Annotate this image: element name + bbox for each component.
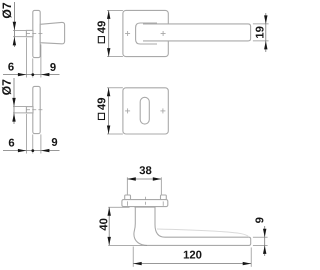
label Ø7 (drawing 1) bbox=[2, 3, 11, 18]
arrow 40 bottom (drawing 5) bbox=[108, 237, 111, 246]
keyhole slot (drawing 4) bbox=[140, 97, 149, 124]
6 / 9 dimension line (drawing 2) bbox=[3, 150, 60, 152]
screw axis tick left (drawing 5) bbox=[127, 201, 129, 205]
9 dimension line (drawing 5) bbox=[264, 226, 266, 256]
fixing stub (drawing 2) bbox=[26, 107, 33, 113]
extension line grip top (drawing 3) bbox=[253, 23, 269, 25]
spindle stub (drawing 1) bbox=[26, 30, 33, 36]
centerline (drawing 1) bbox=[26, 33, 45, 35]
extension line 120 right (drawing 5) bbox=[250, 248, 252, 267]
arrow for 9 (drawing 2) bbox=[41, 149, 50, 152]
label Ø7 (drawing 2) bbox=[2, 80, 11, 95]
extension line rose top (drawing 3) bbox=[107, 9, 123, 11]
arrow 120 left (drawing 5) bbox=[133, 262, 142, 265]
120 dimension line (drawing 5) bbox=[133, 263, 251, 265]
square symbol of &#9633;49 (drawing 3) bbox=[98, 37, 104, 43]
key rose side view (drawing 2) bbox=[33, 86, 40, 133]
49 dimension line (drawing 4) bbox=[108, 88, 110, 134]
arrow 9 bottom (drawing 5) bbox=[263, 245, 266, 254]
arrow 120 right (drawing 5) bbox=[243, 262, 252, 265]
arrow rose top (drawing 3) bbox=[107, 10, 110, 19]
label 49 (drawing 3) bbox=[97, 21, 105, 33]
screw mark left (drawing 3) bbox=[125, 33, 130, 35]
arrow 38 left (drawing 5) bbox=[127, 177, 136, 180]
extension line screw left (drawing 5) bbox=[126, 177, 128, 194]
arrow to stub bottom (drawing 1) bbox=[13, 37, 16, 46]
reference dot (drawing 2) bbox=[31, 149, 34, 152]
extension line stub bottom (drawing 2) bbox=[13, 112, 28, 114]
arrow grip top (drawing 3) bbox=[264, 15, 267, 24]
6 / 9 dimension line (drawing 1) bbox=[3, 74, 60, 76]
49 dimension line (drawing 3) bbox=[108, 10, 110, 56]
label 49 (drawing 4) bbox=[97, 98, 105, 110]
arrow rose top (drawing 4) bbox=[107, 88, 110, 97]
arrow for 9 (drawing 1) bbox=[41, 73, 50, 76]
square symbol of &#9633;49 (drawing 4) bbox=[98, 113, 104, 119]
extension line grip bottom left (drawing 5) bbox=[108, 244, 147, 246]
square rose front view (drawing 3) bbox=[123, 10, 168, 56]
label 40 (drawing 5) bbox=[99, 219, 107, 231]
label 38 (drawing 5) bbox=[139, 166, 151, 174]
extension line grip bottom right (drawing 5) bbox=[253, 244, 268, 246]
screw mark right (drawing 3) bbox=[161, 33, 166, 35]
lever neck side view (drawing 1) bbox=[40, 22, 64, 43]
extension line right (9) drawing 2 bbox=[40, 134, 42, 153]
extension line rose top (drawing 4) bbox=[107, 87, 123, 89]
label 9 (drawing 1) bbox=[50, 63, 55, 71]
extension line stub top (drawing 2) bbox=[13, 106, 28, 108]
extension line grip bottom (drawing 3) bbox=[253, 40, 269, 42]
label 9 (drawing 5) bbox=[255, 217, 263, 222]
extension line stub bottom (drawing 1) bbox=[13, 36, 28, 38]
extension line rose bottom (drawing 3) bbox=[107, 56, 123, 58]
arrow to stub top (drawing 2) bbox=[12, 98, 15, 107]
screw axis tick right (drawing 5) bbox=[162, 201, 164, 205]
screw mark right (drawing 4) bbox=[160, 110, 165, 112]
rose edge-on (drawing 5) bbox=[122, 200, 168, 207]
arrow 9 top (drawing 5) bbox=[263, 229, 266, 238]
screw left (drawing 5) bbox=[125, 195, 131, 200]
rose side view (drawing 1) bbox=[33, 10, 40, 57]
label 120 (drawing 5) bbox=[184, 251, 202, 259]
extension line stub top (drawing 1) bbox=[13, 29, 28, 31]
arrow grip bottom (drawing 3) bbox=[264, 41, 267, 50]
19 dimension line (drawing 3) bbox=[265, 13, 267, 52]
screw right (drawing 5) bbox=[161, 195, 167, 200]
square key rose front view (drawing 4) bbox=[123, 88, 168, 134]
extension line 120 left (drawing 5) bbox=[132, 247, 134, 267]
lever grip front view (drawing 3) bbox=[143, 24, 251, 41]
extension line rose bottom (drawing 4) bbox=[107, 133, 123, 135]
arrow to stub top (drawing 1) bbox=[13, 22, 16, 31]
arrow rose bottom (drawing 4) bbox=[107, 126, 110, 135]
centerline (drawing 2) bbox=[26, 109, 45, 111]
&#216;7 dimension line (drawing 2) bbox=[13, 78, 15, 124]
38 dimension line (drawing 5) bbox=[127, 178, 161, 180]
grip top far edge faint line (drawing 5) bbox=[157, 229, 249, 237]
extension line rose bottom (drawing 5) bbox=[108, 206, 129, 208]
arrow rose bottom (drawing 3) bbox=[107, 48, 110, 57]
extension line centre (dot) drawing 1 bbox=[32, 58, 34, 77]
extension line left (6) drawing 1 bbox=[25, 38, 27, 78]
arrow for 6 (drawing 1) bbox=[18, 73, 27, 76]
label 6 (drawing 2) bbox=[9, 139, 14, 147]
arrow to stub bottom (drawing 2) bbox=[12, 113, 15, 122]
extension line left (6) drawing 2 bbox=[25, 114, 27, 154]
handle side view outline (drawing 5) bbox=[134, 207, 251, 246]
handle neck front view (drawing 3) bbox=[136, 23, 157, 44]
neck collar shadow line (drawing 5) bbox=[134, 206, 155, 208]
screw mark left (drawing 4) bbox=[125, 110, 130, 112]
label 6 (drawing 1) bbox=[8, 63, 13, 71]
arrow 40 top (drawing 5) bbox=[108, 207, 111, 216]
&#216;7 dimension line (drawing 1) bbox=[13, 2, 15, 47]
spindle centerline (drawing 5) bbox=[144, 197, 146, 210]
extension line right (9) drawing 1 bbox=[40, 44, 42, 77]
extension line grip top right (drawing 5) bbox=[253, 236, 268, 238]
extension line screw right (drawing 5) bbox=[160, 177, 162, 194]
40 dimension line (drawing 5) bbox=[108, 207, 110, 245]
extension line centre (dot) drawing 2 bbox=[32, 134, 34, 153]
arrow for 6 (drawing 2) bbox=[18, 149, 27, 152]
reference dot (drawing 1) bbox=[31, 73, 34, 76]
label 19 (drawing 3) bbox=[256, 27, 264, 38]
label 9 (drawing 2) bbox=[52, 138, 57, 146]
arrow 38 right (drawing 5) bbox=[153, 177, 162, 180]
